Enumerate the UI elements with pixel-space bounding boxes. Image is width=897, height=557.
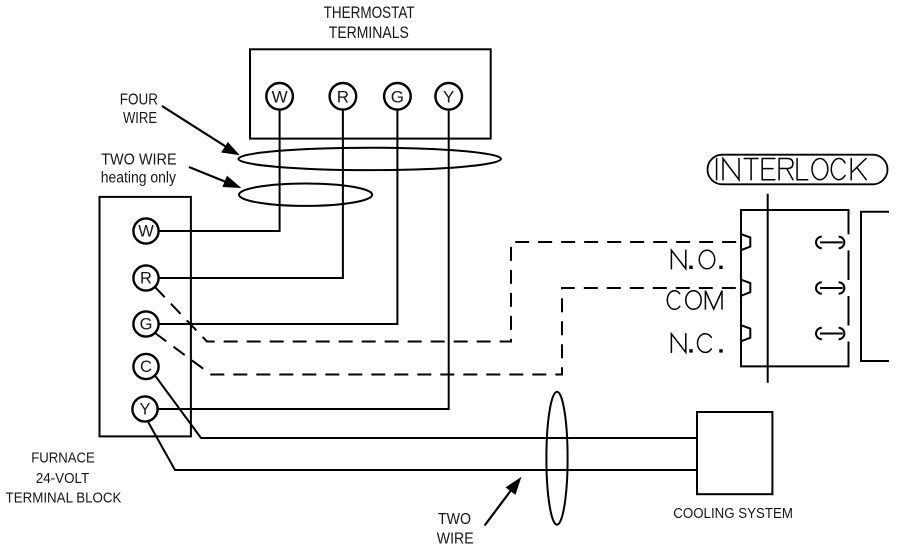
terminal W (furnace) <box>133 218 158 243</box>
four-wire cable ellipse <box>238 148 501 170</box>
wire W (thermostat to furnace) <box>159 110 280 231</box>
terminal Y (furnace) <box>132 396 157 421</box>
interlock switch box (right edge gapped) <box>741 210 849 366</box>
terminal G (furnace) <box>133 311 158 336</box>
terminal tab COM <box>741 280 750 296</box>
cooling system box <box>697 412 772 494</box>
label INTERLOCK <box>717 159 867 180</box>
label COM <box>667 291 722 310</box>
svg-text:TERMINALS: TERMINALS <box>329 24 409 42</box>
connector symbol N.O. row <box>816 237 844 249</box>
svg-text:THERMOSTAT: THERMOSTAT <box>324 4 415 22</box>
dashed wire G to COM <box>155 288 740 375</box>
svg-text:G: G <box>391 87 404 106</box>
svg-text:FOUR: FOUR <box>120 92 158 109</box>
terminal R (furnace) <box>133 265 158 290</box>
thermostat terminal box <box>250 49 491 138</box>
svg-text:TWO WIRE: TWO WIRE <box>101 152 176 169</box>
wire Y to cooling system <box>147 420 697 470</box>
label FURNACE 24-VOLT TERMINAL BLOCK <box>6 450 122 506</box>
terminal Y (thermostat) <box>435 83 462 110</box>
label THERMOSTAT TERMINALS <box>324 4 415 42</box>
leader arrow (two wire bottom) <box>485 478 521 526</box>
svg-text:C: C <box>140 358 152 376</box>
label N.C. <box>671 334 722 353</box>
svg-text:W: W <box>272 87 288 106</box>
terminal C (furnace) <box>133 354 158 379</box>
terminal tab N.O. <box>741 234 750 250</box>
svg-text:R: R <box>140 270 152 288</box>
terminal tab N.C. <box>741 325 750 341</box>
wire C to cooling system <box>155 376 697 439</box>
wire G (thermostat to furnace) <box>159 110 398 324</box>
terminal W (thermostat) <box>266 83 293 110</box>
label N.O. <box>671 250 722 269</box>
dashed wire R to N.O. <box>155 242 740 342</box>
leader arrow (four wire) <box>162 106 239 155</box>
furnace terminal block box <box>100 197 191 437</box>
terminal R (thermostat) <box>330 83 357 110</box>
svg-text:Y: Y <box>443 87 454 106</box>
label TWO WIRE (bottom) <box>437 511 474 548</box>
svg-text:heating only: heating only <box>101 170 176 187</box>
svg-text:24-VOLT: 24-VOLT <box>36 471 90 487</box>
svg-text:FURNACE: FURNACE <box>31 450 95 466</box>
svg-text:Y: Y <box>139 401 150 419</box>
connector symbol N.C. row <box>816 328 844 340</box>
wire Y (thermostat to furnace) <box>158 110 449 409</box>
INTERLOCK stadium callout <box>708 155 888 185</box>
connector symbol COM row <box>816 282 844 294</box>
leader arrow (two wire) <box>189 167 240 188</box>
svg-text:WIRE: WIRE <box>437 530 474 547</box>
svg-text:R: R <box>337 87 349 106</box>
label TWO WIRE heating only <box>101 152 177 187</box>
terminal G (thermostat) <box>384 83 411 110</box>
svg-text:COOLING SYSTEM: COOLING SYSTEM <box>673 506 793 522</box>
two-wire cable ellipse <box>239 184 372 206</box>
svg-text:W: W <box>138 223 154 241</box>
svg-text:TWO: TWO <box>438 511 471 528</box>
two-wire cable ellipse (cooling) <box>546 392 567 525</box>
svg-text:TERMINAL BLOCK: TERMINAL BLOCK <box>6 490 122 506</box>
svg-text:WIRE: WIRE <box>123 110 157 127</box>
svg-text:G: G <box>140 316 153 334</box>
interlock vertical line <box>767 194 769 383</box>
right bracket <box>861 212 889 361</box>
wire R (thermostat to furnace) <box>159 110 343 278</box>
label FOUR WIRE <box>120 92 158 128</box>
